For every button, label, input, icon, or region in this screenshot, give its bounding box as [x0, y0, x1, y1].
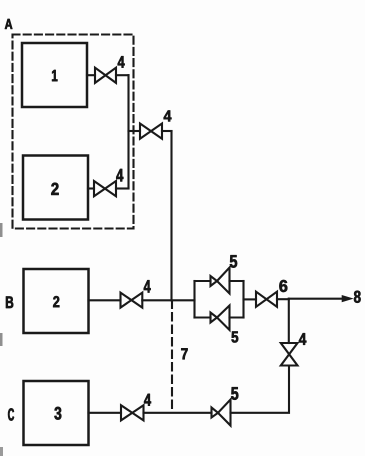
label 4 (vertical valve) [299, 333, 306, 345]
wire parallel block left bar [193, 281, 195, 318]
wire outlet to arrow 8 [289, 298, 343, 300]
wire junction to header valve [129, 130, 141, 132]
label 4 (box2 valve) [116, 169, 123, 181]
label 1 (box 1) [52, 70, 57, 81]
wire valve to check valve [144, 412, 212, 414]
label 4 (box1 valve) [118, 56, 125, 67]
wire bottom branch left [195, 316, 211, 318]
box 2 (inside A) [23, 156, 88, 220]
box 1 [22, 43, 87, 107]
label 5 (top branch) [230, 255, 237, 268]
wire header valve to drop [162, 130, 172, 132]
valve 4 (A header) [140, 124, 162, 139]
box 3 (row C) [24, 381, 89, 445]
check valve 5 (row C) [212, 400, 231, 426]
valve 4 (row B) [121, 293, 143, 308]
valve 4 (box 1 outlet) [95, 68, 116, 83]
check valve 5 (bottom branch) [211, 306, 230, 331]
label 5 (row C) [231, 387, 238, 400]
wire valve to riser [116, 187, 129, 189]
label 4 (row C valve) [144, 394, 151, 406]
wire dashed line 7 [171, 301, 173, 413]
wire valve 6 to junction [277, 298, 289, 300]
wire parallel block right bar [242, 281, 244, 318]
label 7 [181, 348, 187, 359]
scan smudge left edge 1 [0, 223, 3, 237]
wire top branch left [195, 280, 211, 282]
arrowhead 8 [342, 296, 351, 302]
wire valve to parallel block [142, 299, 194, 301]
wire vertical drop to row B [170, 131, 172, 301]
valve 6 [256, 292, 277, 307]
wire block to valve 6 [244, 298, 257, 300]
label C [8, 408, 14, 420]
wire valve to riser [116, 74, 129, 76]
valve 4 (vertical) [281, 343, 298, 366]
label 2 (box row B) [53, 296, 59, 307]
wire bottom branch right [230, 316, 244, 318]
wire vertical valve to row C [231, 366, 290, 413]
wire box C to valve [89, 412, 122, 414]
box 2 (row B) [24, 269, 89, 333]
wire junction down to vertical valve [288, 299, 290, 343]
node A (dashed enclosure) [13, 35, 134, 229]
label 4 (row B valve) [144, 280, 151, 292]
label B [6, 297, 13, 309]
label 4 (header valve) [164, 111, 172, 122]
valve 4 (row C) [121, 405, 144, 420]
check valve 5 (top branch) [211, 268, 230, 294]
label 3 (box row C) [54, 407, 61, 420]
label 2 (box 2 in A) [51, 183, 58, 195]
label 6 [279, 280, 287, 292]
scan smudge bottom left [0, 447, 3, 456]
wire riser joining box1/box2 outlets [127, 75, 129, 188]
label 8 [354, 291, 361, 303]
wire box1 to valve [87, 74, 95, 76]
valve 4 (box 2 outlet) [94, 181, 116, 196]
label 5 (bottom branch) [232, 332, 239, 343]
wire top branch right [230, 280, 244, 282]
wire box B to valve [89, 299, 121, 301]
label A [5, 19, 12, 29]
wire box2 to valve [88, 187, 94, 189]
scan smudge left edge 2 [0, 333, 3, 346]
